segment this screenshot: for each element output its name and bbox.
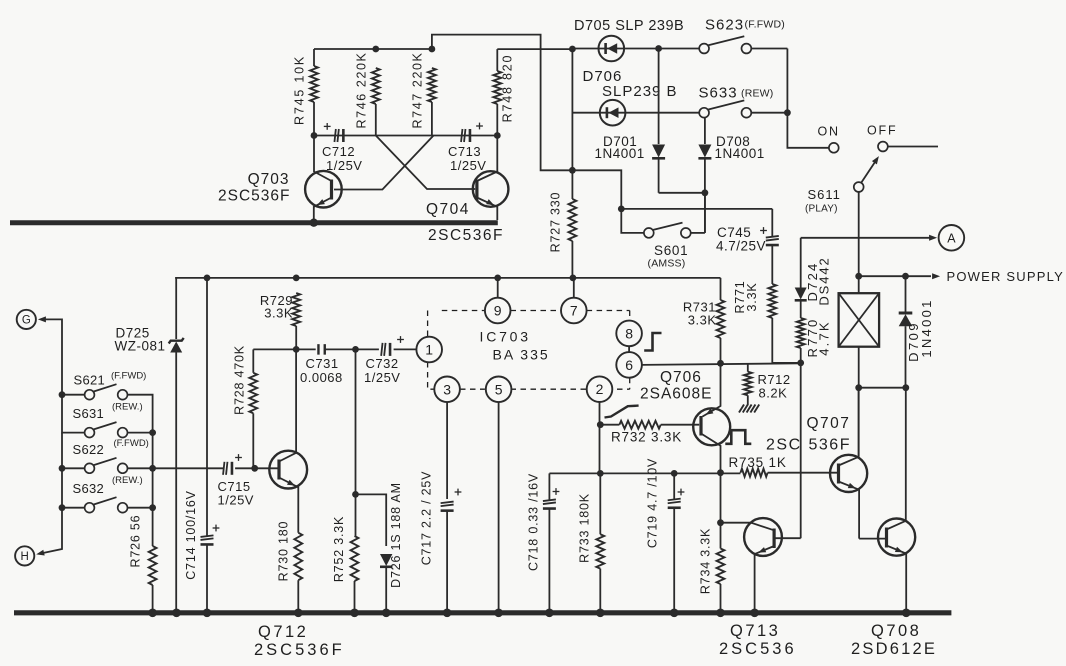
switch S621 [85, 384, 128, 399]
zener D725 [169, 338, 184, 610]
arrow A [929, 235, 937, 241]
svg-text:Q704: Q704 [426, 201, 470, 218]
svg-text:R746 220K: R746 220K [355, 52, 369, 129]
svg-text:8: 8 [625, 325, 633, 341]
wire C715 to base [235, 467, 279, 469]
node D726 branch [352, 491, 359, 498]
wire H arrow [36, 508, 62, 556]
svg-text:4.7/25V: 4.7/25V [716, 239, 766, 254]
label R732 3.3K [611, 430, 682, 445]
svg-text:1N4001: 1N4001 [715, 146, 765, 161]
wire C732 to pin1 [394, 348, 417, 350]
switch S611 [854, 156, 879, 192]
label C719 4.7/10V [646, 458, 660, 548]
wire pin5 down [498, 402, 500, 610]
node bus D725 [172, 609, 181, 618]
node D705 left [569, 46, 576, 53]
node S601 junction [618, 206, 625, 213]
switch S633 [699, 100, 751, 117]
svg-text:(AMSS): (AMSS) [648, 258, 686, 270]
IC pin 6 [616, 346, 642, 378]
svg-text:1/25V: 1/25V [218, 493, 254, 508]
diode D726 [380, 554, 392, 610]
label D705 SLP239B [574, 18, 684, 34]
IC pin 7 [561, 278, 587, 323]
wire right drop 2 [152, 468, 154, 507]
node C719 top [671, 470, 678, 477]
label R771 3.3K [733, 280, 759, 313]
transistor Q713 [721, 518, 801, 610]
transistor Q704 [473, 136, 509, 221]
node bus C718 [545, 609, 554, 618]
label S633 [699, 85, 774, 102]
svg-text:C717 2.2 / 25V: C717 2.2 / 25V [420, 471, 434, 566]
resistor R730 [294, 533, 302, 610]
node bus R752 [350, 609, 359, 618]
label Q707 [807, 415, 851, 432]
wire R752 drop [355, 349, 357, 494]
resistor R770 [797, 318, 805, 363]
resistor R747 [428, 68, 436, 136]
node S622 left [59, 465, 66, 472]
label R712 8.2K [758, 372, 791, 401]
plus C717 [455, 489, 462, 496]
wire: flip-flop top rail y49 [314, 49, 432, 66]
node bus Q712 emitter [294, 609, 303, 618]
plus C745 [760, 227, 767, 234]
svg-text:(F.FWD): (F.FWD) [745, 19, 785, 31]
svg-text:R752 3.3K: R752 3.3K [332, 516, 346, 582]
svg-text:ON: ON [818, 125, 840, 139]
svg-text:2SC536F: 2SC536F [218, 188, 290, 205]
transistor Q706 [693, 363, 730, 472]
resistor R728 [249, 349, 257, 468]
svg-text:6: 6 [625, 357, 633, 373]
svg-text:S633: S633 [699, 85, 738, 102]
svg-text:1/25V: 1/25V [450, 158, 486, 173]
svg-text:BA 335: BA 335 [493, 347, 550, 363]
node R746 top [372, 46, 379, 53]
LED D705 [599, 36, 625, 62]
label Q704 [426, 201, 470, 218]
resistor R726 [149, 508, 157, 610]
node Q712 collector top [293, 346, 300, 353]
label C714 100/16V [184, 490, 198, 580]
svg-text:OFF: OFF [867, 124, 897, 138]
node R747 top [429, 46, 436, 53]
wire cross row right [432, 135, 497, 137]
wire S631 right [128, 432, 153, 434]
switch S631 [85, 422, 128, 437]
node power supply tap [855, 273, 862, 280]
svg-text:Q708: Q708 [871, 622, 921, 640]
capacitor C717 [441, 502, 454, 610]
label R731 3.3K [683, 300, 717, 328]
svg-text:R728 470K: R728 470K [233, 345, 247, 415]
wire D706 vertical [571, 49, 573, 170]
svg-text:WZ-081: WZ-081 [115, 339, 166, 354]
resistor R727 [569, 170, 577, 278]
node S621 left [59, 391, 66, 398]
label BA335 [493, 347, 550, 363]
node bus Q708 emitter [902, 609, 911, 618]
diode D701 [652, 49, 665, 193]
capacitor C731 [318, 344, 324, 355]
svg-text:2SD612E: 2SD612E [851, 640, 937, 658]
svg-text:R734 3.3K: R734 3.3K [699, 528, 713, 594]
relay box [839, 276, 880, 388]
svg-text:SLP239 B: SLP239 B [602, 83, 678, 100]
svg-text:3.3K: 3.3K [745, 283, 759, 312]
node bus R733 [596, 609, 605, 618]
svg-text:R748 820: R748 820 [501, 54, 515, 123]
svg-text:3: 3 [443, 381, 451, 397]
label C717 2.2/25V [420, 471, 434, 566]
resistor R729 [292, 293, 300, 349]
node Q706 collector bottom [717, 469, 724, 476]
wire OFF stub [888, 146, 938, 148]
svg-text:C713: C713 [448, 144, 481, 159]
svg-text:IC703: IC703 [480, 329, 531, 345]
node bus D726 [382, 609, 391, 618]
diode D709 [899, 276, 913, 388]
wire A output [801, 237, 931, 239]
label Q713 part [719, 640, 797, 658]
wire right drop 1 [152, 433, 154, 469]
IC pin 1 [416, 337, 442, 363]
IC pin 2 [587, 376, 613, 402]
svg-text:(F.FWD): (F.FWD) [114, 438, 149, 449]
node Q703 collector junction [311, 132, 318, 139]
terminal H [15, 546, 34, 565]
svg-text:3.3K: 3.3K [264, 306, 293, 321]
label OFF [867, 124, 897, 138]
node S631 right [149, 429, 156, 436]
svg-text:R735 1K: R735 1K [729, 455, 787, 470]
svg-text:2: 2 [596, 381, 604, 397]
wire D706 row [572, 112, 699, 114]
svg-text:R730 180: R730 180 [277, 521, 291, 582]
resistor R735 [741, 469, 838, 477]
resistor R733 [596, 473, 604, 610]
wire cross-couple A [376, 136, 475, 190]
label R729 3.3K [260, 293, 293, 321]
ground at R712 [739, 405, 759, 413]
switch contact OFF [878, 142, 888, 152]
svg-text:7: 7 [570, 303, 578, 319]
svg-text:D705 SLP 239B: D705 SLP 239B [574, 18, 684, 34]
label Q708 [871, 622, 921, 640]
label S623 [705, 17, 785, 34]
wire pin3 down [446, 402, 448, 499]
label S621 [74, 371, 147, 388]
plus C732 [397, 336, 404, 343]
wire pin6 row [642, 363, 801, 365]
label Q707 part B [809, 437, 851, 454]
node R728 bottom [251, 465, 258, 472]
svg-text:Q713: Q713 [730, 622, 780, 640]
label IC703 [480, 329, 531, 345]
label POWER SUPPLY [947, 269, 1064, 284]
label S601 [648, 243, 689, 270]
IC pin 3 [434, 377, 460, 403]
node R733 top [597, 470, 604, 477]
IC703 dashed box [428, 311, 630, 390]
wire pin2 down [599, 402, 601, 473]
svg-text:H: H [21, 551, 29, 563]
wire S622 right [128, 467, 153, 469]
svg-text:C731: C731 [306, 356, 339, 371]
label Q712 part [254, 641, 345, 659]
IC pin 9 [485, 278, 511, 323]
node D709 top [902, 273, 909, 280]
wire power supply row [859, 275, 931, 277]
IC pin 5 [486, 377, 512, 403]
label R748 820 [501, 54, 515, 123]
label R730 180 [277, 521, 291, 582]
node rail pin7 [570, 275, 577, 282]
node Q713 collector junction [717, 519, 724, 526]
label C713 [448, 144, 486, 173]
label S631 [73, 402, 143, 422]
svg-text:C732: C732 [366, 356, 399, 371]
LED D706 [600, 100, 626, 126]
capacitor C718 [543, 473, 556, 610]
node Q704 collector junction [494, 132, 501, 139]
resistor R712 [744, 363, 752, 405]
svg-text:3.3K: 3.3K [688, 313, 717, 328]
node R732 left [597, 421, 604, 428]
wire C715 row [153, 467, 224, 469]
arrow power supply [932, 273, 940, 279]
waveform at pin 8 [644, 333, 661, 351]
svg-text:9: 9 [494, 303, 502, 319]
wire C731-C732 [325, 348, 379, 350]
wire cross row left [314, 135, 376, 137]
label D725 [115, 326, 166, 354]
svg-text:S611: S611 [808, 187, 841, 202]
label S611 [805, 187, 841, 215]
node S632 right [149, 504, 156, 511]
label Q708 part [851, 640, 937, 658]
wire cross-couple B [334, 136, 434, 190]
svg-text:8.2K: 8.2K [759, 386, 788, 401]
svg-text:(PLAY): (PLAY) [805, 204, 838, 215]
switch contact ON [829, 143, 839, 153]
wire S601 right arm [691, 193, 705, 233]
node bus pin5 [494, 609, 503, 618]
node S622 right [149, 465, 156, 472]
resistor R745 [310, 66, 318, 136]
transistor Q703 [305, 136, 342, 222]
plus C714 [213, 525, 220, 532]
wire lower row y473 [549, 472, 740, 474]
wire S621-S631 left [62, 395, 85, 433]
capacitor C719 [668, 473, 681, 610]
svg-text:5: 5 [495, 381, 503, 397]
svg-text:0.0068: 0.0068 [300, 370, 343, 385]
label Q704 part [428, 227, 504, 244]
terminal A [939, 225, 965, 251]
label C718 0.33/16V [527, 473, 541, 571]
label C745 [716, 225, 766, 254]
label D706 [583, 68, 678, 100]
label Q713 [730, 622, 780, 640]
svg-text:C714 100/16V: C714 100/16V [184, 490, 198, 580]
svg-text:1: 1 [425, 342, 433, 358]
label D709 1N4001 [906, 298, 934, 362]
node bus C717 [443, 609, 452, 618]
svg-text:1/25V: 1/25V [326, 158, 362, 173]
svg-text:2SC536: 2SC536 [719, 640, 797, 658]
wire S632 left [62, 468, 85, 507]
label R746 220K [355, 52, 369, 129]
label R733 180K [578, 493, 592, 563]
svg-text:R726 56: R726 56 [129, 515, 143, 568]
svg-text:1N4001: 1N4001 [595, 146, 645, 161]
capacitor C712 [334, 129, 343, 142]
wire S622 left [62, 433, 85, 469]
wire: main rail y278 [175, 277, 720, 279]
wire relay-D709 bridge [859, 387, 906, 389]
svg-text:(REW.): (REW.) [112, 402, 143, 413]
capacitor C714 [201, 278, 214, 610]
resistor R771 [768, 284, 800, 363]
label R752 3.3K [332, 516, 346, 582]
label C715 [218, 479, 254, 508]
label S632 [73, 475, 143, 496]
node D709 bottom [902, 384, 909, 391]
svg-text:R747 220K: R747 220K [411, 52, 425, 129]
svg-text:536F: 536F [809, 437, 851, 454]
svg-text:DS442: DS442 [816, 256, 831, 305]
node S633 join [784, 109, 791, 116]
wire to S601 section [572, 170, 621, 209]
svg-text:C719 4.7 /10V: C719 4.7 /10V [646, 458, 660, 548]
svg-text:C718 0.33 /16V: C718 0.33 /16V [527, 473, 541, 571]
resistor R752 [351, 494, 359, 610]
wire C745 feed [621, 208, 772, 210]
wire S621 left [62, 394, 85, 396]
capacitor C715 [223, 462, 232, 475]
transistor Q708 [859, 388, 915, 610]
node bus R734 [716, 609, 725, 618]
capacitor C745 [766, 209, 779, 284]
svg-text:1/25V: 1/25V [364, 370, 400, 385]
label Q706 [660, 369, 702, 386]
svg-text:R732 3.3K: R732 3.3K [611, 430, 682, 445]
wire S611 down [858, 192, 860, 276]
node D708 bottom [702, 189, 709, 196]
switch S601 [644, 223, 691, 238]
resistor R748 [493, 71, 501, 136]
switch lever pin2 [605, 406, 639, 418]
node S632 left [59, 504, 66, 511]
svg-text:1N4001: 1N4001 [919, 298, 934, 357]
node R770 bottom [797, 360, 804, 367]
svg-text:2SC: 2SC [766, 437, 802, 454]
svg-text:S623: S623 [705, 17, 744, 34]
node Q703 emitter on bus [310, 219, 318, 227]
label Q712 [258, 623, 308, 641]
transistor Q712 [269, 349, 307, 532]
svg-text:Q703: Q703 [248, 171, 290, 188]
resistor R731 [717, 278, 725, 363]
node rail pin9 [494, 275, 501, 282]
label R770 4.7K [805, 318, 831, 358]
svg-text:S631: S631 [73, 406, 105, 421]
node bus C714 [203, 609, 212, 618]
svg-text:A: A [947, 231, 956, 245]
svg-text:4.7K: 4.7K [816, 320, 831, 356]
wire S632 right [128, 507, 153, 509]
svg-text:Q707: Q707 [807, 415, 851, 432]
svg-text:(REW): (REW) [741, 88, 774, 100]
resistor R734 [717, 473, 725, 610]
wire S623 to corner [751, 49, 787, 113]
label R727 330 [549, 192, 563, 253]
node rail C714 [204, 275, 211, 282]
wire relay drive [800, 363, 802, 538]
wire S601 left arm [621, 209, 644, 233]
bus: upper ground rail [10, 220, 498, 225]
label D701 [595, 134, 645, 161]
wire R748 top [497, 49, 572, 71]
label Q707 part A [766, 437, 802, 454]
node rail R729 [293, 275, 300, 282]
node R752 top [352, 346, 359, 353]
capacitor C732 [381, 343, 390, 356]
svg-text:R733 180K: R733 180K [578, 493, 592, 563]
svg-text:G: G [22, 315, 31, 327]
wire S633 to node [751, 112, 787, 114]
svg-text:S621: S621 [74, 373, 106, 388]
label D724 DS442 [805, 256, 831, 305]
bus: bottom ground rail [14, 610, 951, 615]
label R735 1K [729, 455, 787, 470]
svg-text:Q706: Q706 [660, 369, 702, 386]
wire D726 branch [356, 494, 387, 546]
diode D724 [795, 238, 807, 318]
wire cross row mid [376, 135, 432, 137]
label D726 1S188 AM [389, 482, 403, 588]
svg-text:(REW.): (REW.) [112, 475, 143, 486]
wire D701-D708 join [659, 192, 705, 194]
plus C718 [553, 488, 560, 495]
wire rail corner down D725 [175, 278, 177, 339]
svg-text:S622: S622 [73, 442, 105, 457]
label C712 [322, 144, 362, 173]
svg-text:C712: C712 [322, 144, 355, 159]
node R727 top junction [569, 167, 576, 174]
svg-text:R745 10K: R745 10K [293, 55, 307, 125]
svg-text:D726 1S 188 AM: D726 1S 188 AM [389, 482, 403, 588]
plus C713 [476, 123, 483, 130]
label R747 220K [411, 52, 425, 129]
label Q703 [248, 171, 290, 188]
svg-text:2SC536F: 2SC536F [428, 227, 504, 244]
plus C712 [324, 123, 331, 130]
resistor R746 [372, 68, 380, 136]
label R728 470K [233, 345, 247, 415]
node pin6-R731 [717, 360, 724, 367]
waveform at Q706 [725, 430, 751, 444]
label R726 56 [129, 515, 143, 568]
node relay bottom [855, 384, 862, 391]
IC pin 8 [616, 321, 642, 347]
label ON [818, 125, 840, 139]
wire ON feed [787, 113, 829, 148]
